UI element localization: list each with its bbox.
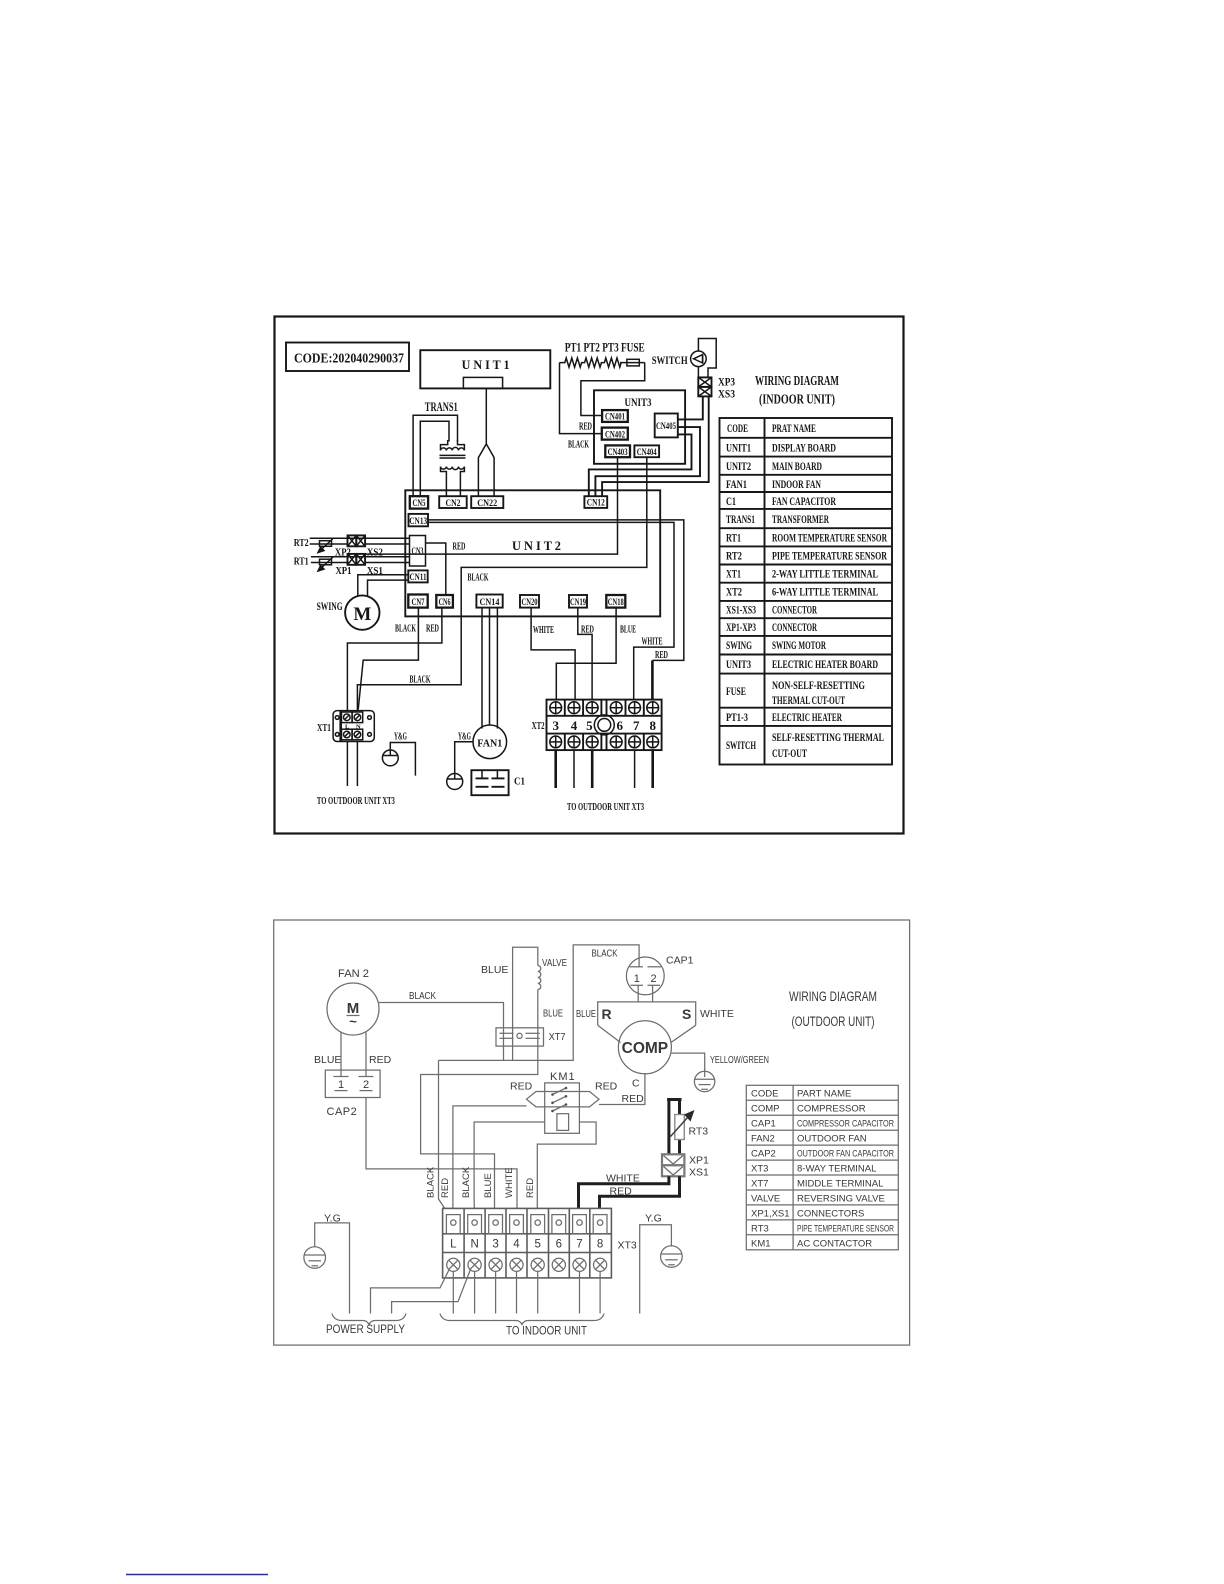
svg-text:XT1: XT1	[317, 722, 331, 734]
svg-text:VALVE: VALVE	[542, 957, 567, 969]
wires below XT3	[371, 1270, 601, 1314]
svg-text:(OUTDOOR UNIT): (OUTDOOR UNIT)	[792, 1014, 875, 1029]
wire KM1 coil left to XT3-N	[474, 1122, 545, 1220]
svg-text:UNIT2: UNIT2	[726, 461, 751, 473]
svg-text:ELECTRIC HEATER: ELECTRIC HEATER	[772, 712, 842, 724]
svg-text:TRANS1: TRANS1	[425, 400, 458, 414]
svg-text:4: 4	[513, 1239, 520, 1251]
svg-text:8-WAY TERMINAL: 8-WAY TERMINAL	[797, 1164, 876, 1175]
svg-text:CN18: CN18	[608, 598, 624, 608]
svg-text:U N I T 1: U N I T 1	[462, 357, 510, 372]
board UNIT3	[594, 390, 685, 464]
connector CN2	[439, 496, 467, 508]
transformer TRANS1	[440, 440, 466, 496]
svg-text:CN13: CN13	[409, 517, 427, 527]
svg-text:UNIT3: UNIT3	[625, 395, 652, 409]
OUTDOOR_DIAGRAM	[274, 920, 910, 1345]
svg-text:RED: RED	[440, 1178, 451, 1198]
svg-text:Y.G: Y.G	[645, 1213, 662, 1225]
svg-text:WHITE: WHITE	[700, 1008, 734, 1020]
connector CN7	[408, 595, 427, 608]
svg-text:C1: C1	[726, 496, 736, 508]
svg-text:CONNECTORS: CONNECTORS	[797, 1209, 864, 1220]
connector XP1 XS1	[348, 554, 357, 565]
svg-text:RED: RED	[579, 422, 592, 433]
svg-text:RED: RED	[655, 650, 668, 661]
svg-text:REVERSING VALVE: REVERSING VALVE	[797, 1194, 885, 1205]
svg-text:1: 1	[338, 1079, 344, 1091]
wire CN5 loops to transformer primary	[413, 415, 457, 496]
svg-text:BLUE: BLUE	[483, 1173, 494, 1198]
wire C to KM1	[599, 1074, 645, 1105]
svg-text:CN14: CN14	[480, 598, 500, 608]
svg-text:XS3: XS3	[718, 387, 735, 401]
swing motor M	[345, 595, 379, 629]
wire heater left to CN402	[560, 363, 602, 434]
parts table outdoor	[746, 1085, 898, 1250]
wire KM1 coil right to XT3-5	[537, 1122, 596, 1220]
compressor yoke R S	[638, 958, 652, 1002]
connector CN20	[520, 595, 539, 608]
svg-text:XS1: XS1	[689, 1167, 709, 1179]
compressor COMP	[618, 1021, 671, 1074]
wire CN6 red to XT1	[347, 608, 442, 711]
connector XS3	[698, 387, 711, 397]
board UNIT2	[405, 490, 660, 616]
svg-text:BLUE: BLUE	[620, 625, 636, 636]
svg-text:RT1: RT1	[726, 533, 741, 545]
wire UNIT1 to CN22 pair	[478, 389, 494, 497]
svg-text:RT3: RT3	[689, 1126, 709, 1138]
svg-text:KM1: KM1	[751, 1239, 771, 1250]
wire CAP2-2 to XT3-4 (white)	[366, 1098, 517, 1221]
inductor VALVE coil	[538, 966, 541, 990]
footer blue line	[126, 1574, 268, 1576]
svg-text:PART NAME: PART NAME	[797, 1089, 851, 1100]
wire CN19 red to XT2-5	[578, 608, 592, 700]
connector CN3	[410, 536, 426, 567]
svg-text:MAIN BOARD: MAIN BOARD	[772, 461, 822, 473]
connector CN5	[410, 496, 428, 508]
wire CN405 low to CN12 pin1	[589, 434, 692, 496]
svg-text:CN3: CN3	[412, 547, 424, 557]
svg-text:XT1: XT1	[726, 569, 741, 581]
svg-text:S: S	[682, 1006, 691, 1022]
wire CN18 blue to XT2-3	[556, 608, 616, 700]
svg-text:FAN1: FAN1	[726, 479, 747, 491]
svg-text:5: 5	[534, 1239, 540, 1251]
svg-text:TO OUTDOOR UNIT XT3: TO OUTDOOR UNIT XT3	[567, 801, 644, 813]
svg-text:L: L	[450, 1239, 457, 1251]
svg-text:2-WAY LITTLE TERMINAL: 2-WAY LITTLE TERMINAL	[772, 569, 878, 581]
svg-text:POWER SUPPLY: POWER SUPPLY	[326, 1322, 405, 1336]
svg-text:6: 6	[556, 1239, 562, 1251]
svg-text:OUTDOOR FAN: OUTDOOR FAN	[797, 1134, 867, 1145]
svg-text:RED: RED	[369, 1054, 392, 1066]
svg-text:C: C	[632, 1078, 640, 1090]
code box	[286, 343, 409, 372]
svg-text:CAP2: CAP2	[327, 1106, 358, 1118]
svg-text:CN5: CN5	[413, 499, 426, 509]
svg-text:UNIT3: UNIT3	[726, 659, 751, 671]
svg-text:RED: RED	[622, 1093, 645, 1105]
svg-text:FAN CAPACITOR: FAN CAPACITOR	[772, 496, 836, 508]
svg-text:XT7: XT7	[751, 1179, 768, 1190]
svg-text:XT2: XT2	[532, 720, 545, 732]
svg-text:TRANS1: TRANS1	[726, 514, 755, 526]
svg-text:3: 3	[492, 1239, 498, 1251]
svg-text:CUT-OUT: CUT-OUT	[772, 748, 807, 760]
svg-text:BLUE: BLUE	[314, 1054, 341, 1066]
svg-text:WIRING DIAGRAM: WIRING DIAGRAM	[789, 989, 877, 1004]
svg-text:SWITCH: SWITCH	[726, 740, 756, 752]
wire switch loop	[698, 339, 716, 378]
svg-text:RT1: RT1	[294, 556, 309, 568]
svg-text:THERMAL CUT-OUT: THERMAL CUT-OUT	[772, 695, 845, 707]
svg-text:CODE: CODE	[751, 1089, 778, 1100]
svg-text:N: N	[470, 1239, 478, 1251]
svg-text:CONNECTOR: CONNECTOR	[772, 605, 817, 617]
wire CN20 white to XT2-4	[531, 608, 575, 700]
wire KM1 left contact to XT3-L	[453, 1106, 527, 1220]
svg-text:CONNECTOR: CONNECTOR	[772, 622, 817, 634]
wire CN403 to XS1 top	[365, 457, 617, 554]
svg-text:DISPLAY BOARD: DISPLAY BOARD	[772, 443, 836, 455]
capacitor CAP1	[626, 957, 664, 995]
terminal XT2	[547, 700, 662, 751]
svg-text:XP1: XP1	[689, 1155, 709, 1167]
svg-text:U N I T 2: U N I T 2	[512, 538, 561, 553]
terminal XT1	[333, 711, 374, 742]
outdoor frame	[274, 920, 910, 1345]
svg-text:XP1: XP1	[336, 565, 352, 577]
wire XT1 down L	[346, 742, 348, 787]
svg-text:TO INDOOR UNIT: TO INDOOR UNIT	[506, 1324, 588, 1338]
svg-text:FAN2: FAN2	[751, 1134, 775, 1145]
fuse FUSE	[627, 359, 639, 366]
svg-text:WHITE: WHITE	[606, 1173, 640, 1185]
capacitor C1	[471, 770, 508, 795]
sensor RT2	[310, 538, 410, 553]
wire XS3 right to CN12 pin3	[602, 396, 709, 496]
svg-text:BLACK: BLACK	[410, 675, 431, 686]
connector CN19	[569, 595, 587, 608]
svg-text:CN402: CN402	[605, 430, 625, 440]
svg-text:CN12: CN12	[587, 499, 605, 509]
node circle between 5 and 6	[594, 715, 614, 735]
wire COMP to ground	[671, 1053, 704, 1077]
svg-text:XT7: XT7	[549, 1031, 566, 1043]
svg-text:SELF-RESETTING THERMAL: SELF-RESETTING THERMAL	[772, 732, 884, 744]
svg-text:4: 4	[571, 718, 578, 733]
svg-text:KM1: KM1	[550, 1071, 576, 1083]
connector CN401	[602, 410, 628, 422]
svg-text:8: 8	[649, 718, 656, 733]
svg-text:CAP1: CAP1	[666, 955, 694, 967]
svg-text:BLACK: BLACK	[395, 624, 416, 635]
svg-text:COMP: COMP	[751, 1104, 780, 1115]
connector CN404	[634, 445, 659, 457]
svg-text:COMPRESSOR: COMPRESSOR	[797, 1104, 866, 1115]
svg-text:CN403: CN403	[608, 448, 628, 458]
svg-text:RED: RED	[595, 1081, 618, 1093]
wire XS3 to CN405	[678, 396, 703, 419]
svg-text:5: 5	[586, 718, 593, 733]
svg-text:CN7: CN7	[412, 598, 425, 608]
switch SWITCH	[691, 351, 707, 367]
svg-text:PT1 PT2 PT3 FUSE: PT1 PT2 PT3 FUSE	[565, 341, 645, 355]
connector CN12	[584, 496, 607, 508]
connector XS1	[662, 1165, 684, 1176]
svg-text:RT2: RT2	[726, 551, 742, 563]
connector CN13	[409, 514, 429, 526]
svg-text:CODE:202040290037: CODE:202040290037	[294, 351, 404, 366]
connector CN405	[655, 414, 678, 438]
svg-text:WHITE: WHITE	[504, 1167, 515, 1198]
svg-text:CN2: CN2	[446, 499, 461, 509]
brace POWER SUPPLY	[332, 1314, 406, 1325]
svg-text:CN22: CN22	[477, 499, 497, 509]
wire black bus bottom	[439, 945, 640, 1061]
svg-text:COMPRESSOR CAPACITOR: COMPRESSOR CAPACITOR	[797, 1119, 894, 1130]
svg-text:RED: RED	[581, 625, 594, 636]
svg-text:WIRING DIAGRAM: WIRING DIAGRAM	[755, 374, 839, 389]
svg-text:CN11: CN11	[410, 573, 427, 583]
svg-text:CODE: CODE	[727, 423, 748, 435]
svg-text:RT2: RT2	[294, 537, 309, 549]
connector CN6	[436, 595, 453, 608]
svg-text:CN20: CN20	[522, 598, 538, 608]
wires XT2 bottom	[554, 750, 557, 788]
connector XP2 XS2	[348, 535, 357, 546]
svg-text:1: 1	[634, 973, 640, 985]
connector CN18	[606, 595, 625, 608]
svg-text:6-WAY LITTLE TERMINAL: 6-WAY LITTLE TERMINAL	[772, 587, 878, 599]
svg-text:FUSE: FUSE	[726, 686, 746, 698]
capacitor CAP2	[325, 1070, 380, 1097]
svg-text:UNIT1: UNIT1	[726, 443, 751, 455]
wire white thick to XT3-7	[579, 1176, 669, 1221]
svg-text:AC CONTACTOR: AC CONTACTOR	[797, 1239, 872, 1250]
svg-text:RED: RED	[610, 1186, 633, 1198]
svg-text:BLUE: BLUE	[543, 1008, 563, 1020]
svg-text:YELLOW/GREEN: YELLOW/GREEN	[710, 1054, 769, 1066]
wire XT1 down N	[356, 742, 358, 787]
svg-text:M: M	[353, 604, 371, 625]
wire CN7 black to XT1	[358, 608, 418, 710]
rotated wire labels	[426, 1166, 537, 1198]
svg-text:TO OUTDOOR UNIT XT3: TO OUTDOOR UNIT XT3	[317, 795, 395, 807]
wire red thick to XT2-8	[651, 660, 654, 699]
svg-text:NON-SELF-RESETTING: NON-SELF-RESETTING	[772, 680, 865, 692]
svg-text:BLACK: BLACK	[426, 1166, 437, 1198]
wire FAN2 black to XT7	[379, 1003, 504, 1061]
INDOOR_DIAGRAM	[275, 317, 904, 834]
svg-text:BLACK: BLACK	[592, 948, 618, 960]
connector CN14	[476, 595, 502, 608]
wire CN13 pair to right	[428, 520, 684, 661]
svg-text:BLACK: BLACK	[568, 440, 589, 451]
ground YELLOW/GREEN	[694, 1071, 714, 1091]
wire swing to CN11	[358, 575, 409, 596]
svg-text:RED: RED	[510, 1081, 533, 1093]
svg-text:C1: C1	[514, 777, 525, 788]
svg-text:CN401: CN401	[605, 413, 625, 423]
svg-text:PT1-3: PT1-3	[726, 712, 748, 724]
svg-text:8: 8	[597, 1239, 603, 1251]
connector CN402	[602, 428, 628, 440]
wire CN404 black	[357, 457, 646, 710]
svg-text:7: 7	[633, 718, 640, 733]
svg-text:BLACK: BLACK	[461, 1166, 472, 1198]
svg-text:BLUE: BLUE	[576, 1008, 596, 1020]
fan FAN2 motor	[327, 983, 379, 1035]
svg-text:6: 6	[616, 718, 623, 733]
svg-text:XT3: XT3	[618, 1240, 637, 1252]
svg-text:Y&G: Y&G	[458, 732, 471, 743]
svg-text:SWING MOTOR: SWING MOTOR	[772, 640, 826, 652]
svg-text:SWITCH: SWITCH	[652, 353, 688, 367]
svg-text:WHITE: WHITE	[642, 637, 663, 648]
svg-text:TRANSFORMER: TRANSFORMER	[772, 514, 829, 526]
svg-text:VALVE: VALVE	[751, 1194, 780, 1205]
display board UNIT1	[420, 350, 550, 388]
sensor RT1	[311, 557, 410, 572]
wire red thick to XT3-8	[600, 1176, 680, 1221]
svg-text:MIDDLE TERMINAL: MIDDLE TERMINAL	[797, 1179, 883, 1190]
wire fuse to CN401	[581, 363, 645, 416]
svg-text:PRAT NAME: PRAT NAME	[772, 423, 816, 435]
svg-text:COMP: COMP	[622, 1040, 669, 1057]
wire FAN2 to CAP2	[340, 1032, 342, 1077]
svg-text:PIPE TEMPERATURE SENSOR: PIPE TEMPERATURE SENSOR	[772, 551, 887, 563]
svg-text:2: 2	[363, 1079, 369, 1091]
connector CN22	[471, 496, 503, 508]
svg-text:XS1-XS3: XS1-XS3	[726, 605, 756, 617]
heater resistors PT1-3	[560, 358, 622, 367]
svg-text:L: L	[345, 724, 350, 731]
svg-text:N: N	[356, 724, 361, 731]
svg-text:CN405: CN405	[656, 422, 676, 432]
svg-text:XP1-XP3: XP1-XP3	[726, 622, 756, 634]
svg-text:RED: RED	[426, 624, 439, 635]
terminal XT7	[496, 1028, 544, 1046]
svg-text:BLACK: BLACK	[409, 990, 436, 1002]
connector CN11	[408, 570, 427, 582]
svg-text:ROOM TEMPERATURE SENSOR: ROOM TEMPERATURE SENSOR	[772, 533, 887, 545]
svg-text:RED: RED	[525, 1178, 536, 1198]
svg-text:3: 3	[552, 718, 559, 733]
svg-text:XT2: XT2	[726, 587, 742, 599]
connector CN403	[605, 445, 630, 457]
connector XP1	[662, 1154, 684, 1165]
svg-text:FAN 2: FAN 2	[338, 968, 369, 980]
wires CN14 to FAN1	[481, 608, 483, 729]
svg-text:Y&G: Y&G	[394, 732, 407, 743]
svg-text:ELECTRIC HEATER BOARD: ELECTRIC HEATER BOARD	[772, 659, 878, 671]
svg-text:PIPE TEMPERATURE SENSOR: PIPE TEMPERATURE SENSOR	[797, 1224, 894, 1235]
svg-text:~: ~	[349, 1014, 357, 1029]
svg-text:CAP2: CAP2	[751, 1149, 776, 1160]
svg-text:SWING: SWING	[726, 640, 752, 652]
svg-text:SWING: SWING	[317, 599, 343, 613]
svg-text:RED: RED	[453, 542, 466, 553]
svg-text:FAN1: FAN1	[477, 738, 502, 750]
connector XP3	[698, 377, 711, 387]
svg-text:OUTDOOR FAN CAPACITOR: OUTDOOR FAN CAPACITOR	[797, 1149, 894, 1160]
fan FAN1	[473, 725, 507, 759]
svg-text:(INDOOR UNIT): (INDOOR UNIT)	[759, 393, 835, 408]
svg-text:R: R	[602, 1006, 612, 1022]
svg-text:WHITE: WHITE	[533, 625, 554, 636]
svg-text:BLACK: BLACK	[468, 573, 489, 584]
wire CN405 mid to CN12 pin2	[595, 427, 700, 496]
indoor frame	[275, 317, 904, 834]
svg-text:CN6: CN6	[439, 598, 451, 608]
terminal XT3	[443, 1208, 612, 1278]
parts table indoor	[720, 418, 893, 765]
svg-text:INDOOR FAN: INDOOR FAN	[772, 479, 821, 491]
svg-text:CN19: CN19	[570, 598, 586, 608]
svg-text:XT3: XT3	[751, 1164, 768, 1175]
valve enclosure	[513, 947, 538, 1060]
svg-text:CN404: CN404	[637, 448, 657, 458]
svg-text:XP1,XS1: XP1,XS1	[751, 1209, 790, 1220]
wire CN3 to CN6 red	[426, 543, 446, 595]
svg-text:BLUE: BLUE	[481, 964, 508, 976]
brace TO INDOOR UNIT	[440, 1314, 604, 1325]
svg-text:RT3: RT3	[751, 1224, 769, 1235]
svg-text:7: 7	[576, 1239, 582, 1251]
svg-text:CAP1: CAP1	[751, 1119, 776, 1130]
sensor RT3	[667, 1098, 681, 1154]
svg-text:2: 2	[650, 973, 656, 985]
